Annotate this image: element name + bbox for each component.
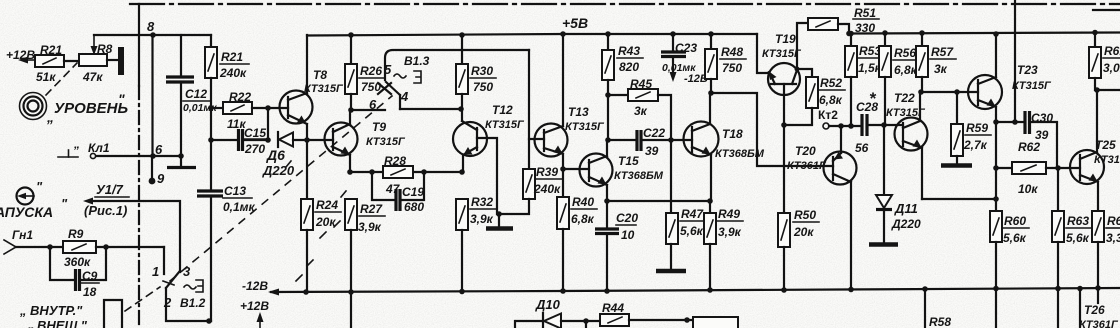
- wire node8 to node6: [151, 35, 153, 156]
- node T13 emitter / T15 base: [560, 166, 566, 172]
- svg-text:C19: C19: [402, 185, 424, 199]
- switch B1.2 pin1 lead: [163, 247, 165, 274]
- svg-text:„: „: [46, 109, 54, 125]
- bottom row wire with corner: [515, 321, 543, 328]
- node 6: [150, 153, 156, 159]
- resistor R43 (820): [605, 31, 611, 37]
- svg-text:C12: C12: [185, 87, 207, 101]
- svg-text:3,9к: 3,9к: [358, 220, 382, 234]
- svg-text:„: „: [73, 137, 80, 151]
- svg-text:Д10: Д10: [535, 297, 561, 312]
- svg-text:R8: R8: [97, 42, 113, 56]
- svg-text:T12: T12: [492, 103, 513, 117]
- svg-text:T22: T22: [894, 91, 915, 105]
- resistor R30 (750): [459, 32, 465, 38]
- svg-text:-12B: -12B: [242, 279, 268, 293]
- transistor T19: [768, 63, 800, 95]
- svg-text:T20: T20: [795, 144, 816, 158]
- svg-text:0,1мк: 0,1мк: [223, 200, 256, 214]
- svg-text:R45: R45: [630, 77, 652, 91]
- svg-text:5,6к: 5,6к: [1066, 231, 1090, 245]
- svg-text:R59: R59: [966, 121, 988, 135]
- node 8: [150, 32, 156, 38]
- resistor R26 (750): [348, 32, 354, 38]
- svg-text:2: 2: [163, 295, 172, 310]
- switch B1.2 pin2 wire down and to bus x211: [166, 288, 211, 321]
- node 8 wire: [94, 34, 211, 36]
- svg-text:R53: R53: [859, 44, 881, 58]
- resistor R47 (5,6k): [670, 140, 672, 213]
- svg-text:750: 750: [473, 80, 493, 94]
- wire below bus right section: [995, 288, 997, 328]
- +5V bus (right part): [849, 33, 1120, 34]
- resistor R51 (330): [808, 18, 838, 30]
- svg-text:240к: 240к: [533, 182, 561, 196]
- svg-text:R61: R61: [1104, 44, 1120, 58]
- svg-text:R24: R24: [316, 198, 338, 212]
- svg-text:КТ315Г: КТ315Г: [565, 121, 605, 133]
- svg-text:56: 56: [855, 141, 869, 155]
- capacitor C13 (0,1mk): [197, 189, 223, 192]
- resistor R21 (51k): [35, 55, 64, 67]
- svg-text:8: 8: [147, 19, 155, 34]
- svg-text:39: 39: [645, 144, 659, 158]
- resistor R44: [600, 314, 629, 326]
- input connector ЗАПУСКА: [17, 188, 34, 205]
- svg-text:C23: C23: [675, 41, 697, 55]
- capacitor C9 (18) in parallel: [50, 247, 75, 280]
- svg-text:R49: R49: [718, 207, 740, 221]
- svg-text:T26: T26: [1084, 303, 1105, 317]
- node R9 right: [103, 244, 109, 250]
- svg-text:3,0к: 3,0к: [1103, 61, 1120, 75]
- mechanical link dashes B1.1 to B1.2: [125, 287, 160, 311]
- svg-text:ВНУТР.": ВНУТР.": [30, 303, 83, 318]
- svg-text:+5B: +5B: [562, 15, 588, 31]
- resistor R56 (6,8k): [882, 30, 888, 36]
- +5V bus (left part): [307, 34, 757, 36]
- resistor R21' 240k: [210, 35, 212, 47]
- potentiometer R8 (47k): [79, 54, 107, 66]
- component box bottom edge: [693, 317, 738, 328]
- node C12 bottom: [178, 153, 184, 159]
- svg-text:(Рис.1): (Рис.1): [84, 203, 127, 218]
- svg-text:КТ315Г: КТ315Г: [485, 119, 525, 131]
- svg-text:R62: R62: [1018, 140, 1040, 154]
- resistor R49 (3,9k): [709, 201, 711, 213]
- svg-text:6,8к: 6,8к: [571, 212, 595, 226]
- node R22 tap: [208, 105, 214, 111]
- svg-text:КТ361Г: КТ361Г: [1079, 319, 1119, 328]
- switch B1.3 lever and pin4: [386, 82, 400, 109]
- svg-text:R28: R28: [384, 154, 406, 168]
- capacitor C12 (0,01mk): [180, 35, 182, 76]
- svg-text:B1.3: B1.3: [404, 54, 430, 68]
- transistor T15: [580, 154, 613, 187]
- node 9 stub: [151, 156, 153, 181]
- frame left boundary dash-dot line: [138, 4, 140, 86]
- svg-text:R56: R56: [894, 46, 916, 60]
- svg-text:6: 6: [155, 142, 163, 157]
- svg-text:ВНЕШ.": ВНЕШ.": [37, 318, 88, 328]
- svg-text:5: 5: [384, 62, 392, 77]
- wire stub below bus: [1079, 288, 1081, 328]
- wire B1.3 top to T13 base and R39: [528, 50, 530, 169]
- capacitor C22 (39): [605, 137, 611, 143]
- svg-text:ЗАПУСКА: ЗАПУСКА: [0, 204, 53, 220]
- svg-text:820: 820: [619, 60, 639, 74]
- svg-text:T18: T18: [722, 127, 743, 141]
- svg-text:R51: R51: [854, 6, 876, 20]
- svg-text:47: 47: [385, 182, 401, 196]
- resistor R45 (3k): [608, 94, 628, 96]
- transistor T9: [325, 123, 358, 156]
- svg-text:": ": [118, 91, 125, 107]
- svg-text:360к: 360к: [64, 255, 91, 269]
- wire T22 emitter to R60: [922, 198, 996, 200]
- svg-text:Д220: Д220: [891, 217, 921, 231]
- resistor R39 (240k): [523, 169, 535, 199]
- svg-text:6: 6: [369, 97, 377, 112]
- svg-text:T15: T15: [618, 154, 639, 168]
- switch B1.3 contact cross: [378, 83, 391, 94]
- node R45 left: [605, 92, 611, 98]
- svg-text:6,8к: 6,8к: [819, 93, 843, 107]
- frame top dash-dot border: [130, 3, 1120, 5]
- svg-text:КТ361Г: КТ361Г: [787, 160, 827, 172]
- capacitor C19 (680) parallel loop: [372, 172, 395, 200]
- svg-text:R22: R22: [229, 90, 251, 104]
- svg-text:T23: T23: [1017, 63, 1038, 77]
- svg-text:C30: C30: [1031, 111, 1053, 125]
- svg-text:20к: 20к: [315, 215, 336, 229]
- svg-text:2,7к: 2,7к: [963, 138, 988, 152]
- node Д11 / R56: [881, 122, 887, 128]
- svg-text:9: 9: [157, 171, 165, 186]
- svg-text:R57: R57: [931, 45, 954, 59]
- switch B1.2 group mark: [184, 285, 196, 289]
- capacitor C30 (39): [996, 121, 1024, 123]
- svg-text:3,9к: 3,9к: [718, 225, 742, 239]
- switch B1.3 pin6 stub: [351, 109, 385, 111]
- svg-text:КТ315Г: КТ315Г: [762, 48, 802, 60]
- resistor R9 (360k): [63, 241, 96, 253]
- R28 row wire: [350, 171, 462, 173]
- +12V arrow: [22, 59, 35, 61]
- dashed pointer knob to R8: [46, 63, 77, 95]
- ground under R47: [670, 244, 672, 269]
- svg-text:680: 680: [404, 200, 424, 214]
- diode Д6: [277, 132, 279, 147]
- resistor R61 (3,0k): [1092, 30, 1098, 36]
- wire T19 base node down to R50: [783, 125, 785, 213]
- resistor R24 (20k): [301, 199, 313, 230]
- resistor R59 (2,7k) to ground: [956, 92, 958, 124]
- resistor R62 (10k): [993, 165, 999, 171]
- ground node T12 base / R39: [496, 211, 502, 217]
- resistor R27 (3,9k): [345, 199, 357, 230]
- wire У1/7 with left arrow to B1.2 pin3: [88, 201, 180, 272]
- transistor T13: [535, 124, 568, 157]
- svg-text:3,9к: 3,9к: [470, 212, 494, 226]
- svg-text:": ": [61, 196, 68, 211]
- svg-text:„: „: [27, 317, 35, 328]
- svg-text:47к: 47к: [82, 70, 103, 84]
- svg-text:51к: 51к: [36, 70, 56, 84]
- diode Д10: [542, 313, 544, 328]
- svg-text:18: 18: [83, 285, 97, 299]
- svg-text:T9: T9: [372, 120, 386, 134]
- bus node dots: [303, 289, 309, 295]
- svg-text:C13: C13: [224, 184, 246, 198]
- svg-text:Д220: Д220: [262, 163, 295, 178]
- transistor T20: [824, 152, 857, 185]
- svg-text:T8: T8: [313, 68, 327, 82]
- svg-text:„: „: [19, 303, 27, 318]
- knob symbol (level control): [20, 93, 47, 120]
- svg-text:Кт2: Кт2: [818, 108, 838, 122]
- svg-text:R48: R48: [721, 45, 743, 59]
- svg-text:B1.2: B1.2: [180, 296, 206, 310]
- svg-text:+12B: +12B: [240, 299, 269, 313]
- +12B up arrow: [259, 316, 261, 328]
- transistor T12: [453, 122, 487, 156]
- svg-text:R30: R30: [471, 64, 493, 78]
- wire below bus to R58: [924, 289, 926, 328]
- node divider: [265, 105, 271, 111]
- svg-text:C15: C15: [244, 126, 266, 140]
- capacitor C15 (270): [211, 139, 238, 141]
- transistor T23: [968, 75, 1002, 109]
- resistor R53 (1,5k): [848, 31, 854, 37]
- svg-text:Д6: Д6: [266, 147, 285, 163]
- node T9 collector: [348, 107, 354, 113]
- node T19 base: [781, 122, 787, 128]
- svg-text:3к: 3к: [634, 104, 648, 118]
- svg-text:5,6к: 5,6к: [1003, 231, 1027, 245]
- wire R8 to chassis bar: [107, 59, 119, 61]
- svg-text:R64: R64: [1107, 214, 1120, 228]
- svg-text:КТ315Г: КТ315Г: [366, 136, 406, 148]
- node R9 left: [47, 244, 53, 250]
- svg-text:R21: R21: [221, 50, 243, 64]
- node T8 emitter / T9 base: [304, 137, 310, 143]
- svg-text:6,8к: 6,8к: [894, 63, 918, 77]
- transistor T8: [280, 91, 313, 124]
- mechanical link dashes B1.2 to B1.3: [170, 96, 392, 281]
- svg-text:4: 4: [400, 89, 409, 104]
- svg-text:КТ315Г: КТ315Г: [886, 107, 926, 119]
- svg-text:КТ315Г: КТ315Г: [304, 83, 344, 95]
- wire stub below bus 2: [1097, 288, 1099, 303]
- svg-text:T13: T13: [568, 105, 589, 119]
- svg-text:5,6к: 5,6к: [680, 224, 704, 238]
- wire T18 collector to T20 base: [711, 93, 833, 166]
- svg-text:R52: R52: [820, 76, 842, 90]
- svg-text:270: 270: [244, 142, 265, 156]
- switch B1.3 group mark: [394, 74, 406, 78]
- transistor T18: [684, 122, 719, 157]
- svg-text:R9: R9: [68, 227, 84, 241]
- capacitor C23 (0,01mk) to -12V: [670, 31, 676, 37]
- resistor R40 (6,8k): [562, 169, 564, 197]
- svg-text:R21: R21: [40, 43, 62, 57]
- wire R21 to R8: [64, 60, 79, 62]
- svg-text:C20: C20: [616, 211, 638, 225]
- capacitor C20 (10): [606, 201, 608, 228]
- svg-text:R43: R43: [618, 44, 640, 58]
- svg-text:1: 1: [152, 264, 159, 279]
- svg-text:240к: 240к: [219, 66, 247, 80]
- svg-text:3,3: 3,3: [1106, 231, 1120, 245]
- +5V bus drop to T19 emitter: [757, 34, 769, 73]
- svg-text:КТ315Г: КТ315Г: [1012, 80, 1052, 92]
- switch B1.2 lever: [166, 272, 179, 288]
- stray link dashes: [296, 275, 302, 281]
- resistor R32 (3,9k): [456, 199, 468, 230]
- resistor R64 (3,3k): [1092, 211, 1104, 242]
- wire node down to R24: [306, 140, 308, 199]
- wire R22 to T8 base: [252, 107, 288, 109]
- svg-text:Д11: Д11: [894, 201, 918, 216]
- svg-text:": ": [36, 179, 43, 194]
- svg-text:R40: R40: [572, 195, 594, 209]
- svg-text:R47: R47: [681, 207, 704, 221]
- svg-text:У1/7: У1/7: [96, 182, 124, 197]
- svg-text:R32: R32: [471, 195, 493, 209]
- svg-text:КТ315Г: КТ315Г: [1094, 154, 1120, 166]
- wire to T23 base: [921, 91, 978, 93]
- node T22 collector / R57: [918, 89, 924, 95]
- emitter row wire T15/T18: [607, 200, 711, 202]
- svg-text:КТ368БМ: КТ368БМ: [614, 170, 664, 182]
- node C15 tap: [208, 137, 214, 143]
- svg-text:C9: C9: [82, 269, 98, 283]
- svg-text:Кл1: Кл1: [88, 141, 110, 155]
- node T25 collector / R61: [1094, 87, 1100, 93]
- -12B bus arrow: [268, 289, 279, 296]
- bottom -12V bus: [271, 288, 1120, 292]
- switch B1.1 box: [104, 300, 122, 328]
- svg-text:Гн1: Гн1: [12, 228, 33, 242]
- wire below bus R63 line: [1057, 289, 1059, 328]
- svg-text:R26: R26: [360, 64, 382, 78]
- wire pin4 to T12 base node: [400, 108, 461, 110]
- chassis bar: [118, 47, 124, 75]
- node T20 emitter tap: [838, 123, 844, 129]
- svg-text:R60: R60: [1004, 214, 1026, 228]
- svg-text:C22: C22: [643, 126, 665, 140]
- resistor R22 (11k): [211, 107, 223, 109]
- transistor T25: [1070, 150, 1104, 184]
- diode Д11 to ground: [883, 125, 885, 195]
- svg-text:R39: R39: [536, 165, 558, 179]
- contact plate under node: [180, 156, 182, 165]
- node T18 collector: [708, 90, 714, 96]
- node C30 left: [993, 119, 999, 125]
- svg-text:3к: 3к: [934, 62, 948, 76]
- wire node down to C15 line: [267, 108, 269, 140]
- transistor T22: [895, 118, 928, 151]
- svg-text:T19: T19: [775, 32, 796, 46]
- svg-text:R63: R63: [1067, 214, 1089, 228]
- svg-text:10к: 10к: [1018, 182, 1038, 196]
- svg-text:10: 10: [621, 228, 635, 242]
- resistor R57 (3k): [919, 30, 925, 36]
- svg-text:R50: R50: [794, 208, 816, 222]
- resistor R60 (5,6k): [990, 211, 1002, 242]
- node R53 tap: [848, 123, 854, 129]
- resistor R28 (47): [383, 166, 413, 178]
- vertical feed line from top edge: [1014, 0, 1016, 122]
- resistor R52 (6,8k): [795, 67, 800, 72]
- resistor R63 (5,6k): [1057, 168, 1059, 211]
- svg-text:R44: R44: [602, 301, 624, 315]
- svg-text:C28: C28: [856, 100, 878, 114]
- resistor R50 (20k): [778, 213, 790, 247]
- svg-text:R58: R58: [929, 315, 951, 328]
- resistor R48 (750): [708, 31, 714, 37]
- svg-text:R27: R27: [360, 202, 383, 216]
- svg-text:750: 750: [722, 61, 742, 75]
- svg-text:20к: 20к: [793, 225, 814, 239]
- switch B1.3 top wire and pin5: [385, 50, 529, 80]
- frame top-right extra segment: [1093, 9, 1120, 11]
- svg-text:T25: T25: [1095, 138, 1116, 152]
